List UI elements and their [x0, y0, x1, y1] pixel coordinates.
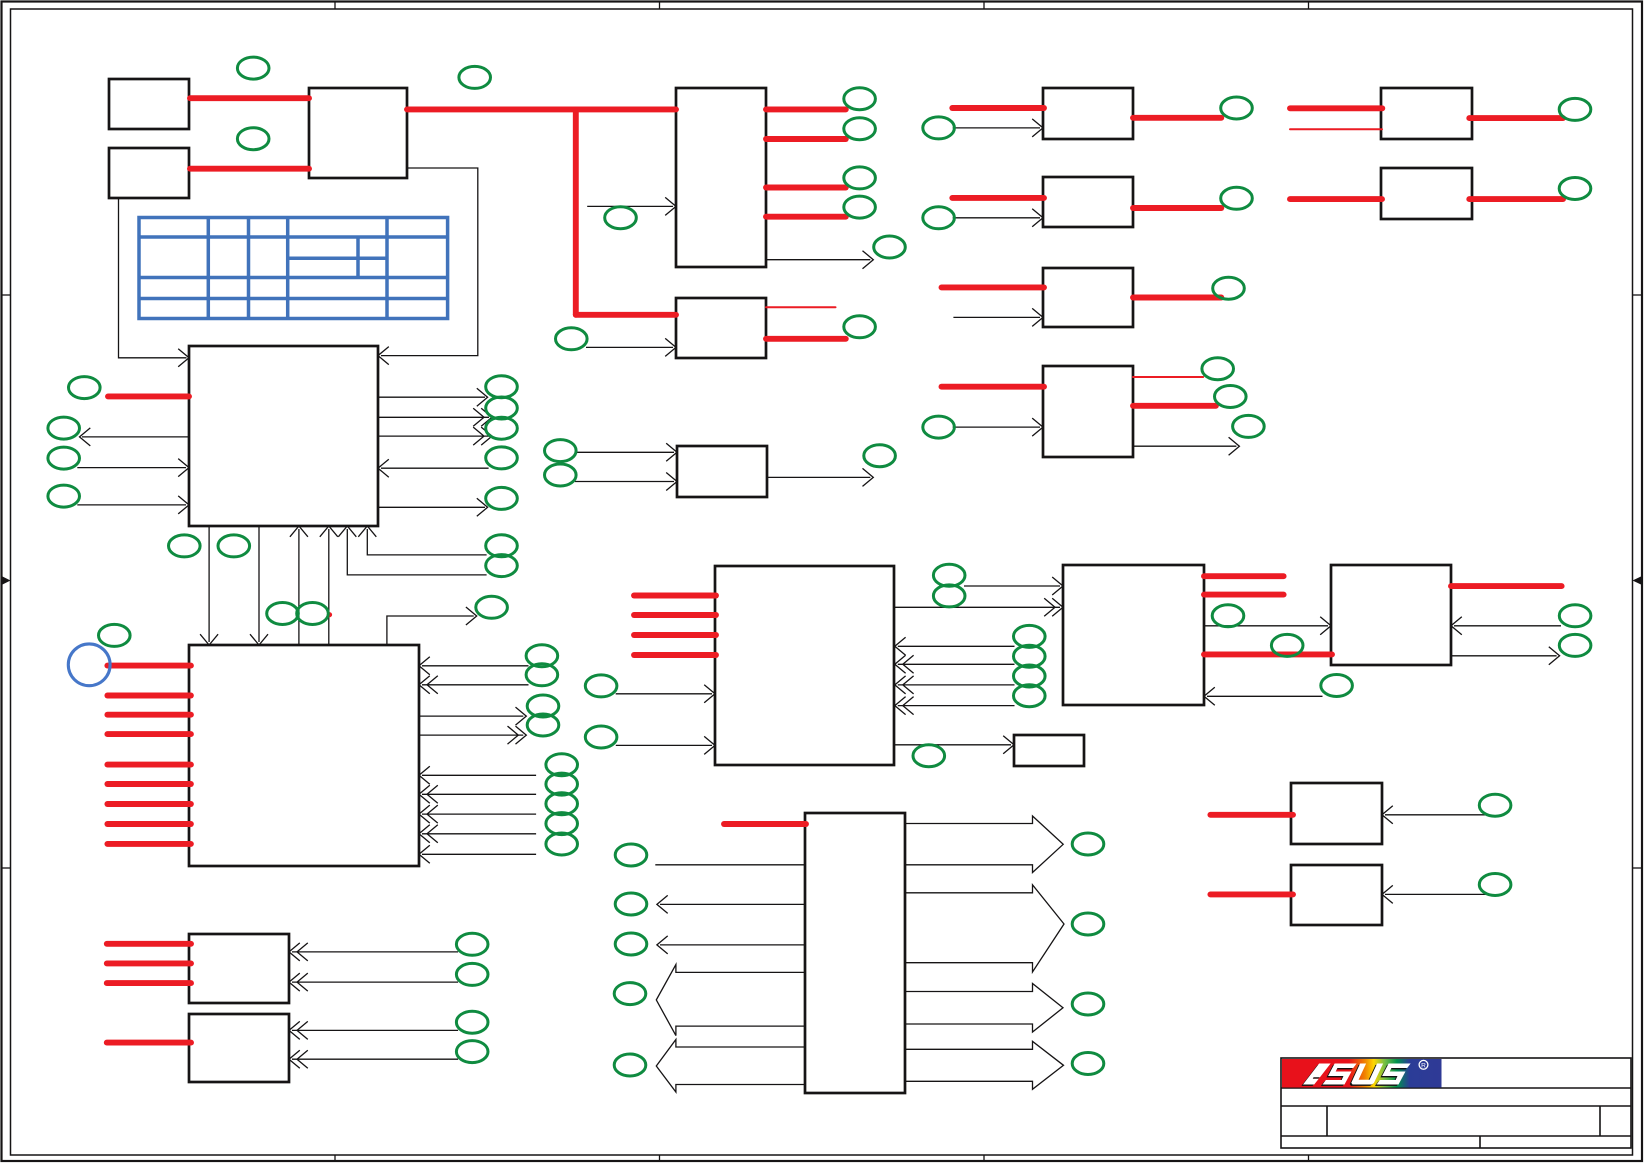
svg-text:R: R: [1421, 1062, 1426, 1069]
